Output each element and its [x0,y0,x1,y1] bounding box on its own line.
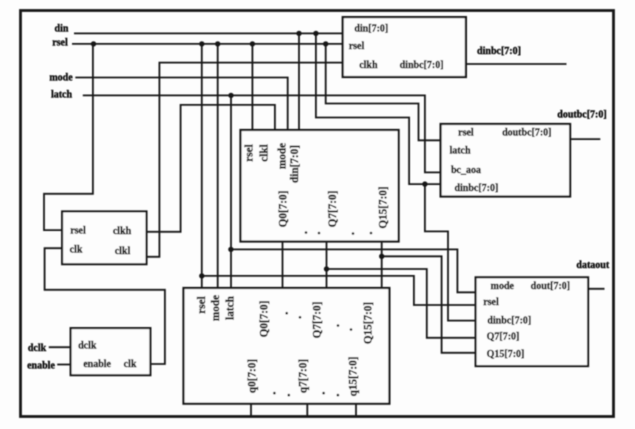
wire rsel branch to U3 [251,44,253,130]
wire rsel branch to U2 [326,44,441,140]
wire clk from U6 to U5 [45,248,165,364]
node dinbc-U7 junction [422,181,427,186]
wire Q15 bus U3 to U4 [381,242,383,289]
wire dinbc output of U1 [466,63,567,65]
svg-text:clkh: clkh [359,60,378,71]
svg-text:enable: enable [27,360,55,371]
wire rsel branch to U7 [202,276,476,305]
node rsel-U7 junction [199,273,204,278]
wire rsel branch to U4 mode pin [217,44,219,288]
wire clkl from U5 to U1 [147,63,343,257]
svg-text:din: din [55,24,69,35]
block U5 clock gen [62,211,146,264]
svg-text:clk: clk [70,245,83,256]
svg-text:rsel: rsel [483,297,499,308]
svg-text:Q7[7:0]: Q7[7:0] [327,191,339,228]
svg-text:mode: mode [210,295,222,321]
node Q7-U7 junction [324,266,329,271]
block U1 dinreg [343,17,466,77]
svg-text:rsel: rsel [196,296,208,313]
wire rsel branch to U4 [201,44,203,288]
svg-text:Q0[7:0]: Q0[7:0] [278,191,290,228]
svg-text:latch: latch [449,145,471,156]
block U3 bc-cell array [241,130,399,242]
svg-text:Q0[7:0]: Q0[7:0] [258,301,270,338]
svg-text:latch: latch [224,295,236,319]
svg-text:Q15[7:0]: Q15[7:0] [487,349,525,360]
svg-text:rsel: rsel [70,226,86,237]
wire din branch to U2 dinbc [316,33,441,184]
svg-text:mode: mode [276,143,288,169]
svg-text:dataout: dataout [576,260,609,271]
svg-text:din[7:0]: din[7:0] [354,23,388,34]
wire dout output of U7 [588,288,604,290]
svg-text:rsel: rsel [349,41,365,52]
node rsel-U3 junction [250,41,255,46]
wire latch net to U2 [83,95,441,172]
node latchline-U7 junction [228,247,233,252]
svg-text:dclk: dclk [28,343,47,354]
wire q7 output stub [306,404,308,417]
svg-text:doutbc[7:0]: doutbc[7:0] [502,127,551,138]
node rsel-U5 junction [91,41,96,46]
block U2 doutreg [441,124,570,197]
wire din net [74,32,343,34]
svg-text:dinbc[7:0]: dinbc[7:0] [477,46,521,57]
svg-text:rsel: rsel [52,38,68,49]
node Q15-U7 junction [379,254,384,259]
wire din branch to U3 [298,33,300,130]
wire dclk input stub [49,346,71,348]
svg-text:dinbc[7:0]: dinbc[7:0] [400,60,444,71]
node rsel-U4mode junction [215,41,220,46]
wire clkh from U5 to U3 [147,105,275,232]
svg-text:enable: enable [83,359,111,370]
svg-text:Q7[7:0]: Q7[7:0] [487,331,520,342]
svg-text:din[7:0]: din[7:0] [289,145,301,183]
wire Q7 bus U3 to U4 [326,242,328,289]
svg-text:dclk: dclk [78,341,97,352]
svg-text:bc_aoa: bc_aoa [451,165,481,176]
svg-text:mode: mode [491,281,515,292]
wire Q7 branch to U7 [327,269,476,338]
svg-text:rsel: rsel [244,144,256,161]
svg-text:mode: mode [49,73,73,84]
wire Q0 bus U3 to U4 [282,242,284,289]
wire q0 output stub [250,404,252,417]
svg-text:q15[7:0]: q15[7:0] [348,357,360,397]
wire Q15 branch to U7 [382,256,476,353]
svg-text:q7[7:0]: q7[7:0] [298,359,310,393]
block U4 latch array [184,288,390,404]
svg-text:clkl: clkl [258,144,270,161]
node rsel-U2 junction [323,41,328,46]
wire enable input stub [57,364,70,366]
wire doutbc output of U2 [570,138,600,140]
svg-text:clkh: clkh [113,226,132,237]
svg-text:Q15[7:0]: Q15[7:0] [363,302,375,344]
wire mode net to U3 [75,78,287,131]
wire latch line branch to U7 mode pin [231,249,476,292]
block U6 clock divider [71,328,151,375]
svg-text:clkl: clkl [115,246,131,257]
wire q15 output stub [355,404,357,417]
svg-text:rsel: rsel [458,127,474,138]
node din-U3 junction [296,31,301,36]
svg-text:clk: clk [124,359,137,370]
wire latch branch to U4 [230,95,232,288]
svg-text:dinbc[7:0]: dinbc[7:0] [454,183,498,194]
svg-text:dinbc[7:0]: dinbc[7:0] [487,315,531,326]
svg-text:Q15[7:0]: Q15[7:0] [378,186,390,228]
wire rsel net [72,43,343,45]
svg-text:q0[7:0]: q0[7:0] [247,359,259,393]
svg-text:latch: latch [51,90,73,101]
node rsel-U4 junction [199,41,204,46]
wire rsel branch to U5 [44,44,93,230]
svg-text:doutbc[7:0]: doutbc[7:0] [557,110,606,121]
svg-text:dout[7:0]: dout[7:0] [531,281,570,292]
node din-U2 junction [313,31,318,36]
svg-text:Q7[7:0]: Q7[7:0] [311,302,323,339]
wire dinbc branch to U7 [425,184,476,321]
node latch-U4 junction [228,93,233,98]
block U7 output mux [476,277,588,366]
